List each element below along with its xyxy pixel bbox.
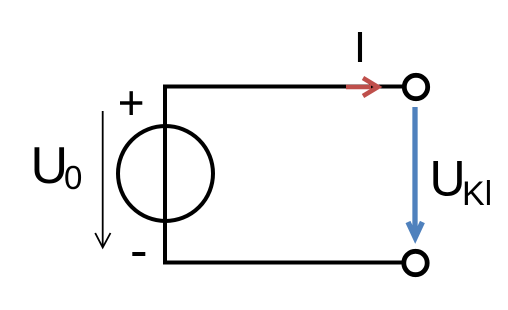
- minus polarity mark: [132, 252, 145, 256]
- wire left vertical: [163, 85, 167, 265]
- wire bottom: [163, 261, 402, 265]
- svg-text:I: I: [354, 23, 366, 72]
- voltage arrow U0: [95, 111, 110, 248]
- plus polarity mark: [120, 91, 142, 115]
- svg-text:U: U: [430, 151, 466, 207]
- current arrow I: [346, 78, 378, 96]
- svg-text:U: U: [31, 137, 69, 195]
- wire top: [163, 85, 403, 89]
- voltage arrow UKl: [408, 107, 422, 238]
- voltage source V1: [118, 126, 213, 221]
- terminal top: [404, 75, 427, 98]
- svg-text:Kl: Kl: [462, 175, 492, 213]
- terminal bottom: [404, 251, 427, 274]
- svg-text:0: 0: [64, 159, 82, 196]
